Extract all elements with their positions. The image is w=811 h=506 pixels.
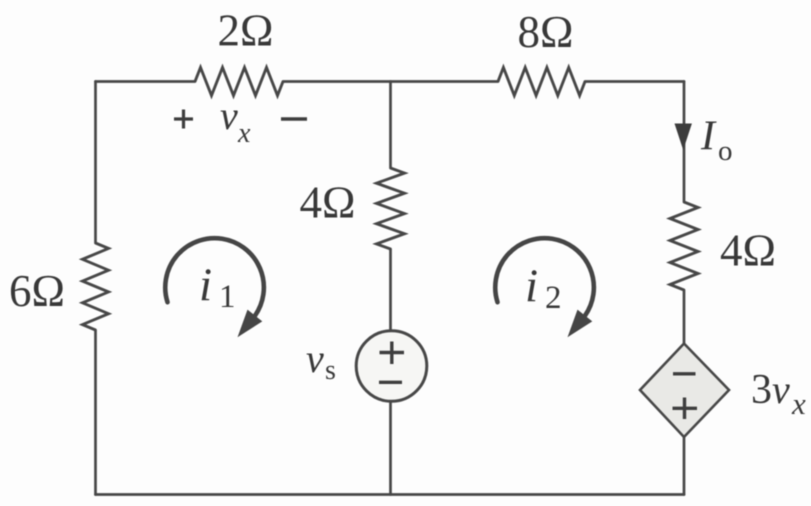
wire right below diamond <box>683 437 686 495</box>
svg-text:v: v <box>306 336 324 381</box>
svg-text:i: i <box>525 260 538 312</box>
wire bottom <box>96 493 685 496</box>
vs plus sign <box>379 342 404 383</box>
current arrow Io <box>675 124 692 151</box>
svg-text:v: v <box>772 367 790 412</box>
svg-text:s: s <box>325 355 336 386</box>
dependent source diamond 3vx <box>640 344 729 438</box>
svg-text:1: 1 <box>219 279 236 315</box>
mesh loop i2 arc <box>495 238 594 316</box>
svg-text:i: i <box>199 259 212 311</box>
svg-text:I: I <box>700 114 717 160</box>
mesh loop i2 arrowhead <box>568 310 593 338</box>
diamond plus sign <box>673 407 698 410</box>
svg-text:8Ω: 8Ω <box>518 7 574 57</box>
svg-text:4Ω: 4Ω <box>300 178 356 228</box>
wire middle between 4ohm and vs <box>389 249 392 331</box>
wire top-right segment <box>585 80 684 83</box>
mesh loop i1 arrowhead <box>238 310 263 338</box>
diamond minus sign <box>673 372 696 375</box>
svg-text:3: 3 <box>751 367 772 413</box>
wire right vertical top <box>683 82 686 203</box>
svg-text:6Ω: 6Ω <box>9 266 65 316</box>
resistor 8ohm <box>498 68 585 96</box>
voltage source vs circle <box>356 331 427 402</box>
svg-text:x: x <box>791 386 806 421</box>
vs minus sign <box>379 381 402 384</box>
wire top-left segment <box>96 80 196 83</box>
svg-text:2Ω: 2Ω <box>218 6 274 56</box>
mesh loop i1 arc <box>165 238 264 316</box>
resistor 2ohm <box>195 68 283 96</box>
wire right between 4ohm and diamond <box>683 290 686 344</box>
svg-text:x: x <box>237 118 251 149</box>
resistor 6ohm <box>83 243 109 330</box>
label minus of vx <box>281 117 307 120</box>
resistor 4ohm right <box>670 202 698 290</box>
svg-text:2: 2 <box>545 280 562 316</box>
svg-text:o: o <box>718 135 733 167</box>
svg-text:4Ω: 4Ω <box>720 226 776 276</box>
label plus of vx <box>174 110 193 129</box>
wire left vertical bottom <box>94 330 97 495</box>
svg-text:v: v <box>220 93 238 138</box>
wire middle below vs <box>389 401 392 495</box>
resistor 4ohm middle <box>377 168 405 249</box>
wire middle vertical top <box>389 82 392 169</box>
wire left vertical top <box>94 82 97 244</box>
wire top-middle segment <box>283 80 498 83</box>
